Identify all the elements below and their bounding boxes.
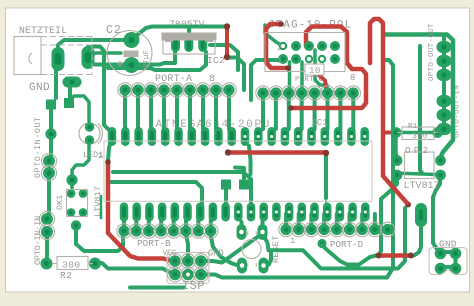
wire mid horizontal 1 xyxy=(113,172,251,205)
svg-text:1: 1 xyxy=(290,236,295,246)
wire v1 OP2 left pad down to via xyxy=(379,178,398,255)
connector OPTO-OUT-IN pads xyxy=(437,95,452,107)
wire jack pad1 down to square xyxy=(54,66,58,98)
svg-text:OPTO-OUT-OUT: OPTO-OUT-OUT xyxy=(428,23,436,81)
wire bottom bundle 1 xyxy=(95,263,175,275)
connector OPTO-IN-IN pads xyxy=(39,211,54,226)
connector OPTO-IN-OUT pads xyxy=(41,153,56,168)
optocoupler OP2 pads xyxy=(392,155,403,166)
svg-text:OP2: OP2 xyxy=(405,146,431,156)
wire via x326 down xyxy=(324,155,328,198)
wire PORT-A drops xyxy=(123,92,127,129)
svg-text:LTV817: LTV817 xyxy=(404,181,440,192)
connector NETZTEIL outline xyxy=(14,37,41,75)
wire inner vertical x420 xyxy=(420,46,422,173)
wire JTAG pin to left vertical col xyxy=(251,60,282,100)
svg-text:OK1: OK1 xyxy=(56,195,65,210)
wire drops IC1 bottom to PORT-B xyxy=(122,220,126,228)
optocoupler OK1 outline xyxy=(67,190,88,217)
svg-text:NETZTEIL: NETZTEIL xyxy=(19,25,67,36)
wire jack pad1 to C2 top pad xyxy=(58,40,128,52)
svg-text:2: 2 xyxy=(277,43,282,53)
pad disc x72 xyxy=(66,174,77,185)
wire led to ok1 xyxy=(72,145,89,188)
wire right outer loop xyxy=(385,35,453,158)
svg-text:PORT-B: PORT-B xyxy=(137,238,171,249)
wire opto-in-out to down xyxy=(47,178,51,213)
wire opto pads chain xyxy=(439,36,444,134)
wire IC2 pad3 right to down col xyxy=(210,45,238,70)
svg-text:IC2: IC2 xyxy=(207,55,225,66)
svg-text:OPTO-IN-IN: OPTO-IN-IN xyxy=(34,216,43,265)
wire red stub R1 xyxy=(385,131,394,135)
svg-text:8: 8 xyxy=(350,73,355,83)
pad disc left xyxy=(45,128,56,139)
capacitor C2 outline xyxy=(107,31,152,76)
svg-text:IC1: IC1 xyxy=(311,118,328,128)
svg-text:PORT-A: PORT-A xyxy=(155,74,192,85)
connector GND pads xyxy=(435,248,447,260)
wire JTAG stub from top xyxy=(265,25,283,46)
svg-text:GND: GND xyxy=(439,239,457,250)
wire red jtag diagonal to portc xyxy=(313,70,327,90)
wire reset BR pad to L1 xyxy=(264,251,272,266)
wire oval pad down to square2 xyxy=(68,88,72,98)
wire reset top pads up xyxy=(240,222,244,230)
wire C2 left stub xyxy=(92,53,121,55)
JTAG pads xyxy=(279,42,287,50)
resistor R2 pads xyxy=(41,258,53,270)
header PORT-C pads xyxy=(256,86,270,100)
IC1 top row pads xyxy=(108,127,117,146)
connector OPTO-OUT-OUT pads xyxy=(437,41,452,53)
svg-text:10: 10 xyxy=(309,66,321,76)
wire OP2 pad to GND feed xyxy=(433,176,441,253)
header PORT-B pads xyxy=(117,224,131,238)
wire lower horizontal to IC2 pad3 xyxy=(108,52,206,70)
svg-text:LED1: LED1 xyxy=(83,151,103,160)
svg-text:R2: R2 xyxy=(60,270,72,281)
IC1 outline xyxy=(104,141,372,201)
ISP outline octagons xyxy=(167,253,209,284)
capacitor C2 pads xyxy=(124,32,140,48)
wire 7805 middle pad up to bus xyxy=(187,27,191,43)
squares left top xyxy=(46,100,56,110)
connector NETZTEIL pads xyxy=(52,47,65,71)
wire JTAG verticals down to PORT-C xyxy=(288,62,292,88)
wire col x250 pad to line1 xyxy=(249,146,251,174)
wire line A bottom xyxy=(317,239,326,248)
svg-text:GND: GND xyxy=(29,82,50,94)
svg-text:8: 8 xyxy=(209,74,215,85)
optocoupler OP2 outline xyxy=(405,152,435,179)
wire square1 down to pad xyxy=(49,110,53,129)
wire drops PORT-D xyxy=(284,214,288,226)
wire OP2 mid horizontal xyxy=(393,173,440,175)
svg-text:300: 300 xyxy=(62,260,81,271)
wire red right vertical pair xyxy=(370,19,407,203)
wire R1 to OP2 xyxy=(396,137,397,157)
wire mid horizontal 2 xyxy=(111,182,202,205)
wire red IC2 vertical xyxy=(225,27,229,57)
resistor R1 outline xyxy=(402,127,434,140)
wire red JTAG left C xyxy=(266,24,288,68)
wire led1 vertical xyxy=(70,96,89,121)
wire red left long xyxy=(108,163,173,261)
wire gnd conn verticals xyxy=(440,250,455,254)
svg-text:OPTO-IN-OUT: OPTO-IN-OUT xyxy=(34,116,43,178)
svg-text:ATMEGA644-20PU: ATMEGA644-20PU xyxy=(156,119,272,131)
LED1 xyxy=(79,123,100,144)
svg-text:47µF: 47µF xyxy=(143,50,151,69)
wire portb8 to reset xyxy=(211,237,242,266)
wire line B bottom xyxy=(201,234,263,263)
header PORT-D pads xyxy=(279,222,293,236)
regulator IC2 outline xyxy=(163,34,215,55)
svg-text:300: 300 xyxy=(412,132,428,141)
wire C2 bottom pad to 7805 area xyxy=(95,52,175,65)
wire x393 vertical xyxy=(201,60,393,278)
wire bottom bundle 2 xyxy=(130,286,184,290)
svg-text:VCC: VCC xyxy=(163,250,177,258)
IC1 bottom row pads xyxy=(120,203,129,222)
wire isp col2 up xyxy=(187,237,189,258)
wire PORT-C drops xyxy=(261,95,265,129)
svg-text:R1: R1 xyxy=(408,123,418,131)
wire jack pad2 right and down long vertical xyxy=(88,47,111,162)
resistor R2 outline xyxy=(57,257,88,270)
wire opto-in-in down to R2 xyxy=(45,237,49,259)
wire ok1 right up xyxy=(84,165,89,186)
svg-text:ISP: ISP xyxy=(182,279,205,293)
wire thin vertical x101 xyxy=(100,196,103,218)
wire via2 down right xyxy=(227,58,244,91)
wire squares to pads xyxy=(224,190,228,205)
resistor R1 pads xyxy=(391,127,402,138)
regulator IC2 pads xyxy=(171,36,180,52)
svg-text:1: 1 xyxy=(121,235,126,245)
wire ok1 out down xyxy=(76,230,123,251)
wire red JTAG arch xyxy=(293,27,366,109)
wire red bottom right segment xyxy=(380,253,410,258)
svg-text:1: 1 xyxy=(277,56,282,66)
svg-text:GND: GND xyxy=(208,249,224,259)
svg-text:PORT-D: PORT-D xyxy=(330,239,364,250)
reset switch outline xyxy=(242,240,261,259)
pad oblong right bottom xyxy=(415,203,427,227)
box 10 label xyxy=(305,64,324,75)
connector ISP pads xyxy=(168,254,183,269)
connector GND outline xyxy=(429,248,467,275)
pad oval below jack xyxy=(63,77,82,88)
header PORT-A pads xyxy=(118,83,132,97)
wire R1 through xyxy=(396,131,437,135)
wire pad to opto-in-out pads xyxy=(49,139,53,156)
optocoupler OK1 pads xyxy=(67,189,76,198)
wire top bus VCC from C2 to via xyxy=(132,27,226,40)
connector JTAG outline xyxy=(265,33,345,72)
wire red mid horizontal xyxy=(229,150,325,155)
squares area mid xyxy=(221,180,231,190)
svg-text:C2: C2 xyxy=(106,24,122,37)
